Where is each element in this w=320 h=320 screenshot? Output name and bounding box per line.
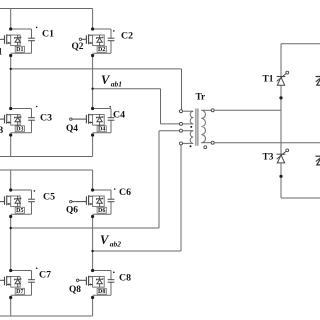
node: Q6 drain junction: [91, 188, 94, 191]
wire: bridge-1 bottom DC rail: [0, 156, 93, 158]
svg-text:ab1: ab1: [111, 80, 122, 89]
node: Q7 drain junction: [9, 269, 12, 272]
transformer primary winding 1: [180, 110, 183, 113]
switch cell Q1 (MOSFET Q1, body diode D1, snubber cap C1): [11, 28, 32, 30]
node: Q4 source junction: [91, 133, 94, 136]
svg-text:V: V: [101, 73, 111, 87]
wire: bridge-1 left leg bus: [10, 9, 12, 30]
node: T1 anode junction: [279, 96, 282, 99]
svg-text:V: V: [100, 233, 110, 247]
node: Q8 drain junction: [91, 269, 94, 272]
node: Q3 source junction: [9, 133, 12, 136]
svg-text:D1: D1: [16, 47, 23, 53]
switch cell Q4 (MOSFET Q4, body diode D4, snubber cap C4): [93, 108, 111, 110]
thyristor T3: [277, 153, 286, 155]
svg-text:C8: C8: [119, 273, 131, 284]
wire: secondary top lead to T1/T3 string: [201, 109, 211, 111]
wire: bridge-2 right leg bus: [92, 170, 94, 190]
svg-text:C4: C4: [113, 110, 125, 121]
polarity dot winding 1: [190, 126, 192, 128]
wire: bridge-2 bottom DC rail: [0, 315, 93, 317]
svg-text:Q6: Q6: [66, 206, 78, 216]
switch cell Q2 (MOSFET Q2, body diode D2, snubber cap C2): [93, 28, 111, 30]
wire: output bottom rail: [281, 197, 320, 199]
node: Q2 drain junction: [91, 27, 94, 30]
svg-text:D2: D2: [98, 47, 105, 53]
node: Q7 source junction: [9, 296, 12, 299]
node: Q3 drain junction: [9, 107, 12, 110]
svg-text:D4: D4: [98, 127, 105, 133]
polarity dot winding 2: [190, 145, 192, 147]
svg-text:Tr: Tr: [196, 93, 206, 103]
thyristor T1: [277, 76, 286, 78]
wire: mid vertical crossing secondary bottom lead: [280, 110, 282, 154]
svg-text:Q8: Q8: [69, 285, 81, 295]
wire: bridge-1 top DC rail: [0, 8, 93, 10]
wire: output top rail: [281, 43, 320, 45]
switch cell Q8 (MOSFET Q8, body diode D8, snubber cap C8): [93, 270, 111, 272]
switch cell Q3 (MOSFET Q3, body diode D3, snubber cap C3): [11, 108, 32, 110]
svg-text:D3: D3: [16, 127, 23, 133]
svg-text:Q2: Q2: [72, 42, 84, 52]
wire: secondary bottom lead to right edge: [201, 142, 211, 144]
node: Q4 drain junction: [91, 107, 94, 110]
node: Q2 source junction: [91, 54, 94, 57]
wire: node B2 (right leg mid) to transformer terminal 4: [93, 250, 181, 252]
node: Q8 source junction: [91, 296, 94, 299]
node: Q5 source junction: [9, 215, 12, 218]
wire: bridge-2 top DC rail: [0, 169, 93, 171]
wire: node B1 (right leg mid) to transformer terminal 2, net Vab1-: [93, 88, 161, 90]
svg-text:C1: C1: [42, 29, 54, 40]
svg-text:C7: C7: [39, 270, 51, 281]
polarity circle secondary: [204, 146, 207, 149]
svg-text:D7: D7: [16, 289, 23, 295]
wire: node A2 (left leg mid) to transformer terminal 3: [11, 227, 159, 229]
switch cell Q7 (MOSFET Q7, body diode D7, snubber cap C7): [11, 270, 32, 272]
wire: node A1 (left leg mid) to transformer terminal 1, net Vab1+: [11, 68, 182, 70]
svg-text:C3: C3: [40, 113, 52, 124]
svg-text:Q4: Q4: [66, 124, 78, 134]
svg-text:C6: C6: [119, 187, 131, 198]
transformer primary winding 2: [180, 129, 183, 132]
svg-text:C5: C5: [43, 192, 55, 203]
wire: T3 anode down to output bottom rail: [280, 163, 282, 198]
wire: bridge-1 right leg bus: [92, 9, 94, 30]
node: Q1 source junction: [9, 54, 12, 57]
svg-text:D5: D5: [16, 208, 23, 214]
node: Q1 drain junction: [9, 27, 12, 30]
thyristor T4 (cut off at edge): [316, 156, 320, 165]
svg-text:Q1: Q1: [0, 48, 3, 58]
svg-text:Q3: Q3: [0, 126, 4, 136]
transformer secondary winding: [201, 110, 205, 142]
wire: bridge-2 left leg bus: [10, 170, 12, 190]
svg-text:C2: C2: [121, 31, 133, 42]
thyristor T2 (cut off at edge): [316, 77, 320, 86]
node: Q5 drain junction: [9, 188, 12, 191]
svg-text:ab2: ab2: [110, 240, 122, 249]
switch cell Q5 (MOSFET Q5, body diode D5, snubber cap C5): [11, 189, 32, 191]
wire: T1 anode to secondary-top node: [280, 85, 282, 110]
node: T3 anode junction: [279, 175, 282, 178]
node: Q6 source junction: [91, 215, 94, 218]
transformer core: [195, 109, 197, 146]
svg-text:D8: D8: [98, 289, 105, 295]
switch cell Q6 (MOSFET Q6, body diode D6, snubber cap C6): [93, 189, 111, 191]
svg-text:T1: T1: [263, 75, 274, 85]
svg-text:T3: T3: [263, 152, 274, 162]
svg-text:D6: D6: [98, 208, 105, 214]
